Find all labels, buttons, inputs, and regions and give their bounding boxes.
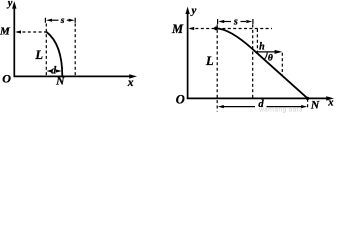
svg-text:x: x: [127, 77, 134, 89]
dashed vertical at field exit (right): [252, 25, 254, 99]
svg-text:M: M: [0, 25, 11, 37]
h dashed vertical (right): [256, 29, 258, 52]
x-axis (right diagram): [187, 96, 334, 100]
theta angle arc (right): [264, 52, 267, 59]
dashed vertical from ray tip down to trajectory (right): [281, 53, 283, 76]
svg-text:θ: θ: [268, 54, 273, 64]
svg-text:s: s: [233, 16, 238, 27]
y-axis (right diagram): [185, 7, 189, 99]
d dimension (left): arrows and label: [46, 69, 62, 72]
svg-text:y: y: [6, 0, 13, 9]
dashed vertical at left plate edge (left diagram): [45, 24, 47, 77]
svg-text:O: O: [2, 71, 11, 85]
trajectory (right): parabola then straight line to N: [216, 28, 308, 98]
svg-text:N: N: [310, 100, 320, 112]
svg-text:N: N: [55, 75, 65, 87]
svg-text:L: L: [34, 48, 43, 62]
dashed vertical through entry point down past axis (right): [216, 25, 218, 112]
dashed vertical at right plate edge (left diagram): [74, 24, 76, 77]
dashed horizontal at M level (right): [188, 27, 272, 30]
svg-text:wanfang data: wanfang data: [258, 107, 303, 114]
dashed horizontal from M to curve start (left): [15, 30, 46, 33]
dashed vertical from N down to d line (right): [307, 99, 309, 108]
y-axis (left diagram): [12, 1, 16, 77]
x-axis (left diagram): [14, 74, 138, 78]
svg-text:L: L: [205, 54, 214, 68]
s dimension (right): ticks, arrows, label: [218, 19, 253, 24]
junction dot at N (right): [306, 97, 309, 100]
svg-text:O: O: [176, 92, 185, 106]
horizontal ray with arrow at theta vertex (right): [256, 50, 282, 54]
svg-text:y: y: [190, 5, 197, 17]
svg-text:s: s: [60, 16, 65, 26]
svg-text:h: h: [259, 42, 265, 53]
s dimension (left): ticks, arrows, label: [45, 18, 75, 23]
svg-text:x: x: [327, 98, 333, 109]
entry point dot (right): [214, 27, 218, 31]
svg-text:M: M: [171, 22, 184, 36]
trajectory curve (left): parabola from M level to N: [47, 32, 63, 76]
d dimension (right): arrows and label: [218, 105, 307, 108]
